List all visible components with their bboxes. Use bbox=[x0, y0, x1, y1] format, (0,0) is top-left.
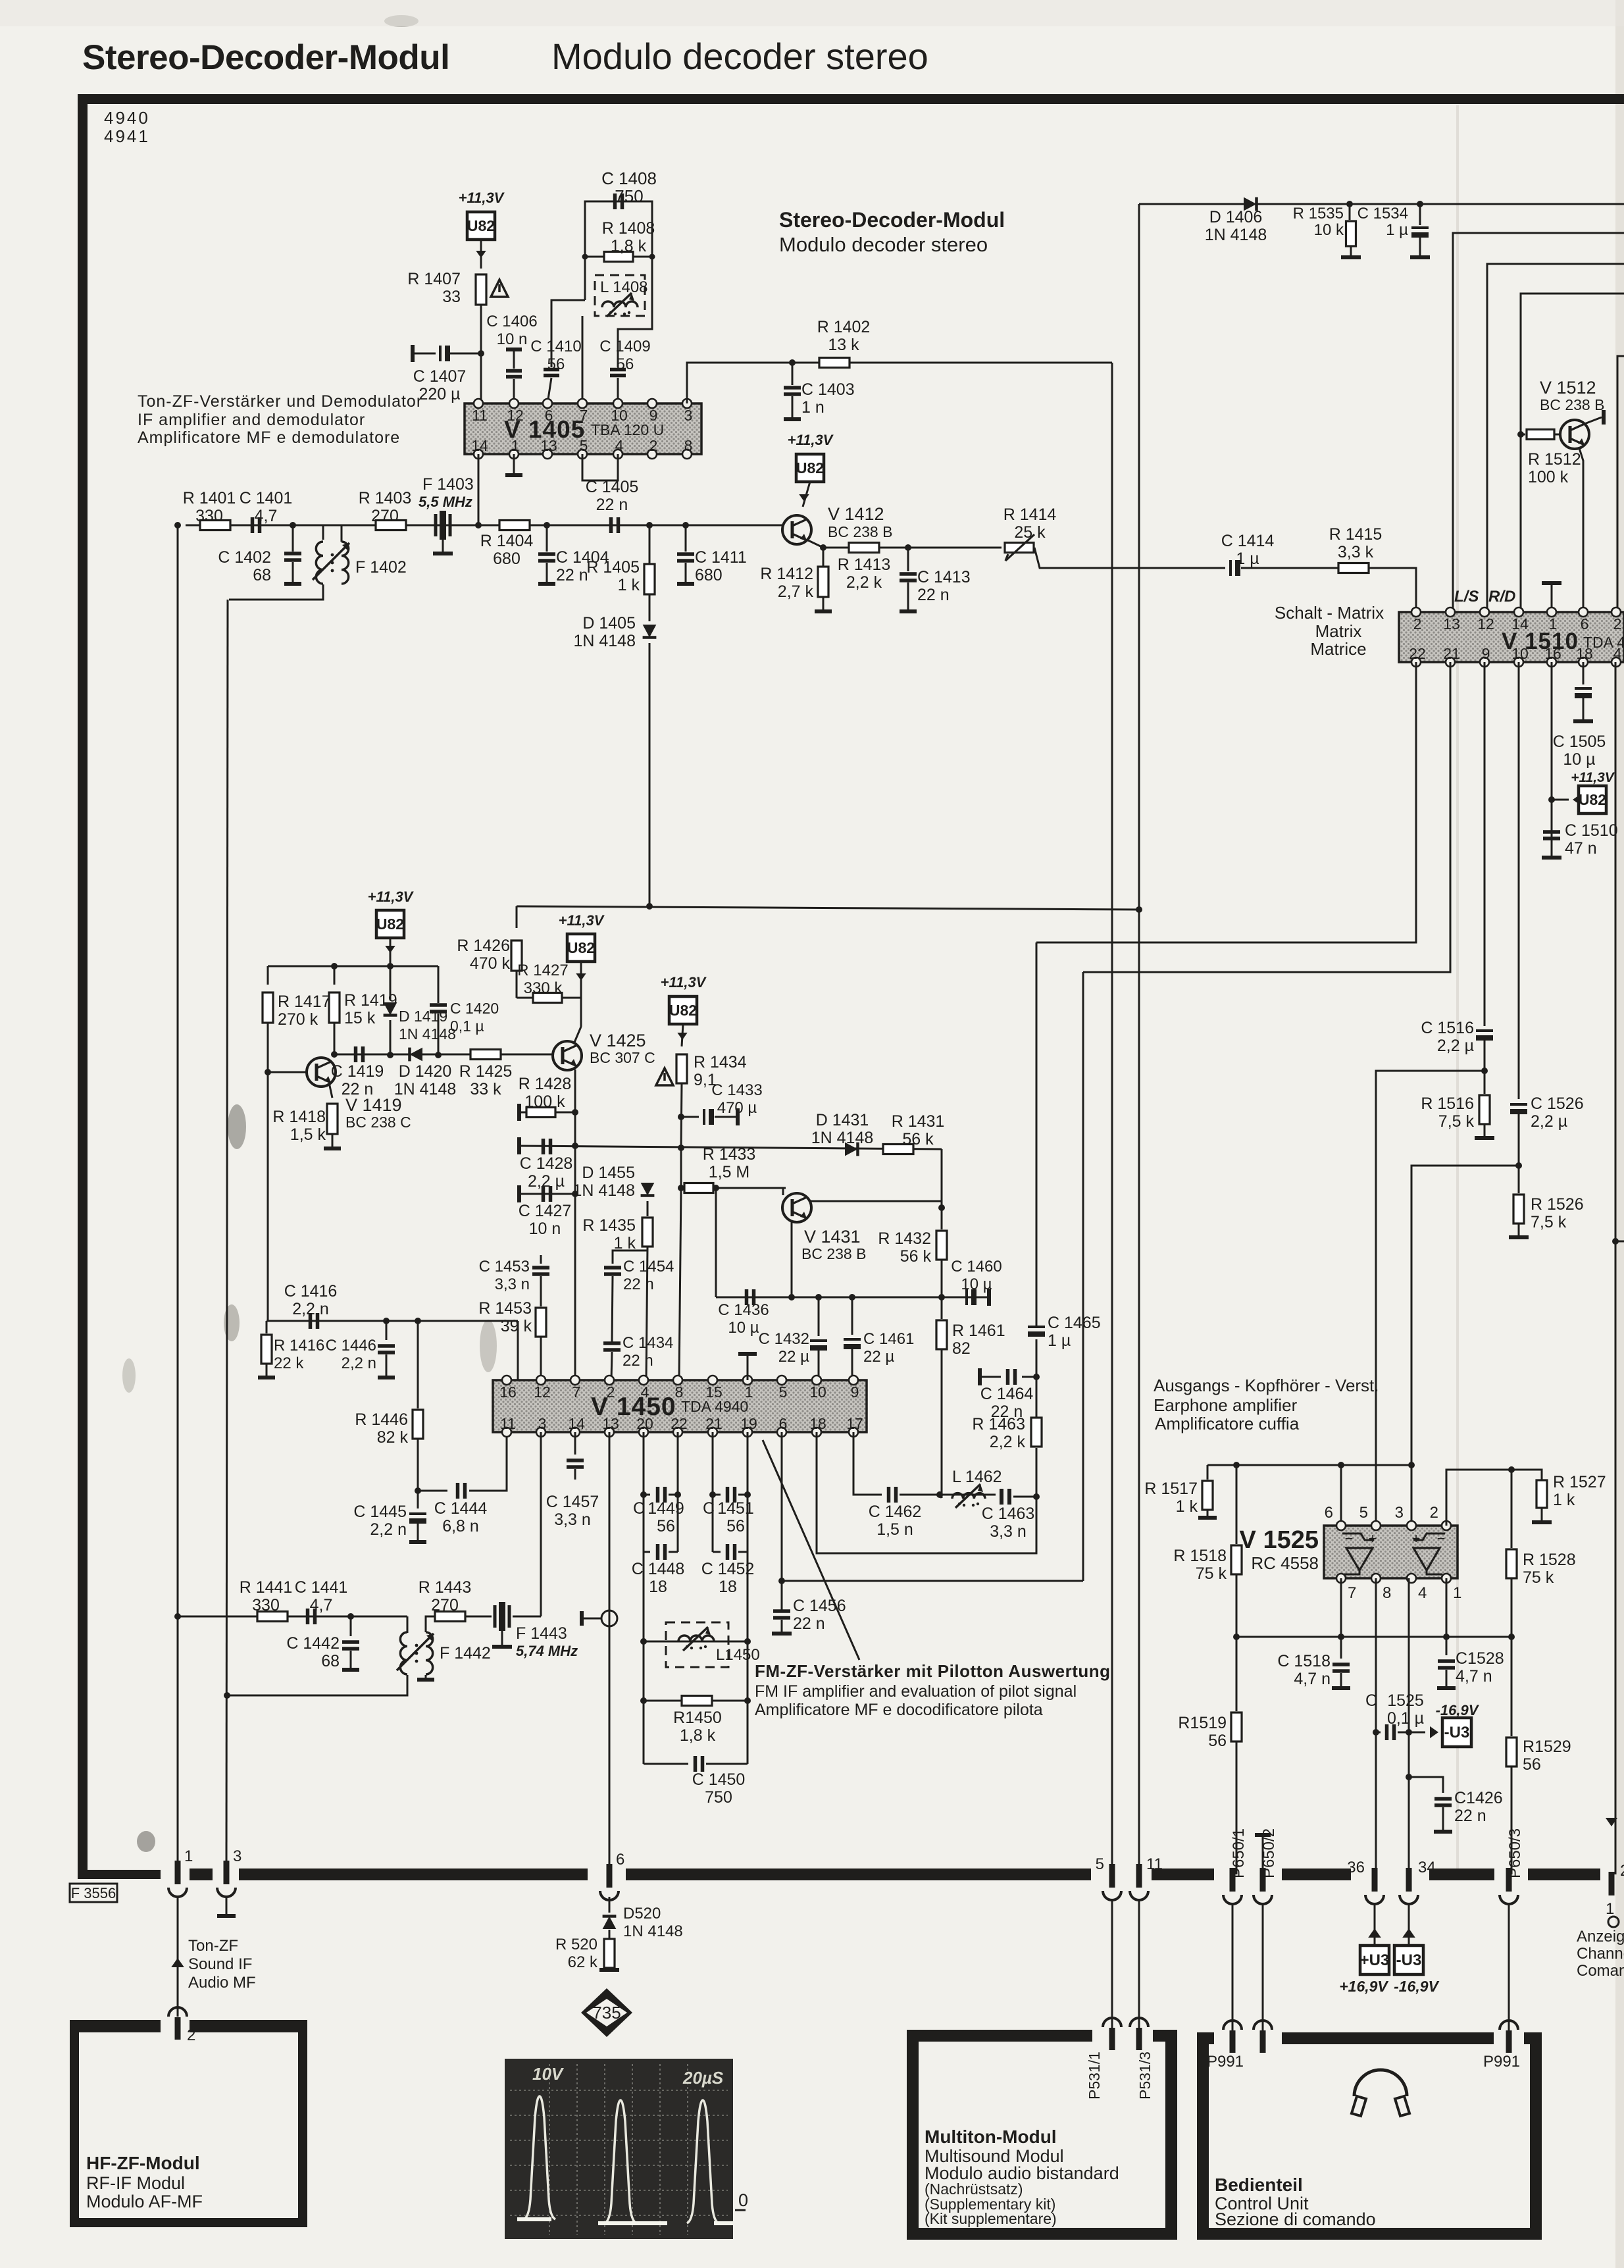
capacitor C1433 bbox=[681, 1116, 699, 1118]
svg-text:R 1426: R 1426 bbox=[457, 937, 510, 955]
svg-text:+16,9V: +16,9V bbox=[1339, 1978, 1388, 1995]
svg-text:R 1434: R 1434 bbox=[694, 1053, 747, 1071]
svg-text:+11,3V: +11,3V bbox=[661, 974, 707, 991]
svg-text:Amplificatore cuffia: Amplificatore cuffia bbox=[1155, 1414, 1300, 1433]
routing wire R1426 node to pin11 line bbox=[517, 906, 1139, 910]
svg-text:R 1417: R 1417 bbox=[278, 992, 331, 1011]
svg-text:R 1413: R 1413 bbox=[838, 555, 891, 574]
wire rail corner down to pin 16 bbox=[517, 1321, 519, 1380]
svg-text:R 1416: R 1416 bbox=[274, 1337, 324, 1354]
svg-text:1,8 k: 1,8 k bbox=[680, 1726, 716, 1745]
svg-text:2,7 k: 2,7 k bbox=[778, 582, 814, 601]
svg-text:C 1411: C 1411 bbox=[695, 548, 747, 567]
svg-text:C 1452: C 1452 bbox=[701, 1560, 755, 1578]
svg-text:15 k: 15 k bbox=[344, 1009, 376, 1027]
resistor R1518 chain bbox=[1236, 1465, 1238, 1544]
resistor R1401 bbox=[200, 521, 230, 530]
wire U82 arrow to R1427 node bbox=[580, 962, 582, 998]
svg-text:C 1446: C 1446 bbox=[326, 1337, 376, 1354]
svg-text:3: 3 bbox=[684, 407, 693, 424]
svg-text:R 1418: R 1418 bbox=[272, 1108, 326, 1126]
stub above V1510 pin 1 bbox=[1542, 581, 1561, 585]
svg-text:25 k: 25 k bbox=[1014, 523, 1046, 542]
diode D1455 bbox=[641, 1183, 655, 1196]
svg-text:6: 6 bbox=[616, 1851, 624, 1869]
svg-text:56: 56 bbox=[547, 355, 565, 373]
svg-text:R 520: R 520 bbox=[555, 1936, 597, 1953]
resistor R1434 bbox=[676, 1054, 687, 1083]
diode D1431 bbox=[845, 1143, 858, 1156]
svg-text:F 1442: F 1442 bbox=[440, 1644, 491, 1662]
resistor R1428 bbox=[517, 1104, 521, 1121]
svg-text:12: 12 bbox=[534, 1383, 551, 1401]
svg-text:+11,3V: +11,3V bbox=[1571, 770, 1615, 785]
emitter wire V1412 bbox=[807, 540, 908, 548]
svg-text:470 µ: 470 µ bbox=[717, 1099, 757, 1117]
svg-text:56 k: 56 k bbox=[902, 1130, 934, 1148]
svg-text:22 n: 22 n bbox=[793, 1614, 825, 1633]
svg-text:18: 18 bbox=[809, 1415, 826, 1432]
bias rail wire bbox=[268, 966, 438, 967]
junction pin10 chain bbox=[1515, 1162, 1522, 1169]
capacitor C1406 bbox=[506, 348, 522, 351]
inductor L1450 dashed box bbox=[640, 1638, 647, 1645]
Ton-ZF input wire bbox=[177, 1897, 179, 2017]
svg-text:2,2 n: 2,2 n bbox=[342, 1354, 376, 1372]
svg-text:17: 17 bbox=[846, 1415, 863, 1432]
wire V1510 pin21 stair to left bbox=[1083, 662, 1450, 972]
ground stub below pin 3 bbox=[226, 1897, 228, 1914]
resistor R1519 bbox=[1236, 1637, 1238, 1711]
V1425 collector down bbox=[574, 1070, 576, 1380]
V1431 base corner bbox=[782, 1188, 784, 1195]
svg-text:F 1403: F 1403 bbox=[422, 475, 474, 494]
svg-text:20µS: 20µS bbox=[682, 2068, 724, 2088]
wire V1525 pin3 from above bbox=[1411, 1465, 1413, 1526]
wire R1427 node to V1425 emitter bbox=[580, 998, 582, 1027]
svg-text:V 1510: V 1510 bbox=[1502, 629, 1579, 654]
wire pin8 down to C1525 node bbox=[1375, 1578, 1377, 1732]
svg-text:Stereo-Decoder-Modul: Stereo-Decoder-Modul bbox=[82, 38, 449, 77]
svg-text:TDA 4940: TDA 4940 bbox=[681, 1398, 748, 1415]
C1416 rail bbox=[266, 1320, 518, 1322]
svg-text:680: 680 bbox=[493, 550, 520, 568]
svg-text:18: 18 bbox=[649, 1578, 667, 1596]
resistor R1431 bbox=[883, 1145, 913, 1154]
label F3556 bbox=[70, 1884, 117, 1902]
transistor V1431 bbox=[782, 1193, 811, 1222]
module pin 1 bbox=[175, 1861, 181, 1884]
capacitor C1518 bbox=[1340, 1637, 1342, 1659]
svg-text:R 1526: R 1526 bbox=[1531, 1195, 1584, 1214]
svg-text:D 1420: D 1420 bbox=[399, 1062, 452, 1081]
svg-text:22 n: 22 n bbox=[622, 1352, 653, 1370]
resistor R1535 bbox=[1346, 201, 1353, 207]
svg-text:4940: 4940 bbox=[104, 108, 150, 128]
svg-text:R 1435: R 1435 bbox=[582, 1216, 636, 1235]
svg-text:2,2 µ: 2,2 µ bbox=[528, 1172, 565, 1191]
svg-text:P991: P991 bbox=[1207, 2053, 1244, 2071]
resistor R1419 bbox=[334, 966, 336, 985]
svg-text:14: 14 bbox=[471, 437, 488, 454]
svg-text:22 µ: 22 µ bbox=[778, 1348, 809, 1366]
vertical V1510 pin10 chain bbox=[1518, 662, 1520, 1099]
wires pin5/11 to Multiton bbox=[1111, 1899, 1113, 2032]
svg-text:-16,9V: -16,9V bbox=[1436, 1702, 1480, 1718]
svg-text:C 1419: C 1419 bbox=[331, 1062, 384, 1081]
wire pin 14 down to main line bbox=[478, 454, 480, 525]
resistor R1418 bbox=[327, 1104, 338, 1134]
svg-text:C 1456: C 1456 bbox=[793, 1597, 846, 1615]
module pin 34 bbox=[1406, 1868, 1412, 1892]
main wire C1428 D1431 R1431 bbox=[517, 1137, 521, 1154]
svg-text:2,2 n: 2,2 n bbox=[370, 1520, 407, 1539]
capacitor C1516 bbox=[1476, 1029, 1493, 1032]
svg-text:C 1534: C 1534 bbox=[1358, 205, 1408, 222]
capacitor C1452 bbox=[713, 1551, 721, 1553]
wire U82 to R1407 bbox=[480, 240, 482, 269]
capacitor C1408 bbox=[615, 193, 622, 209]
wire R1433 junction down bbox=[715, 1188, 717, 1297]
power U82 for V1412 bbox=[796, 454, 824, 482]
svg-text:Audio MF: Audio MF bbox=[188, 1974, 256, 1992]
wire pin1 down bbox=[1446, 1578, 1448, 1637]
svg-text:Modulo decoder stereo: Modulo decoder stereo bbox=[779, 233, 988, 256]
+U3 supply arrow 36 bbox=[1374, 1903, 1376, 1946]
svg-text:Ausgangs - Kopfhörer - Verst.: Ausgangs - Kopfhörer - Verst. bbox=[1154, 1376, 1379, 1395]
svg-text:L 1408: L 1408 bbox=[600, 278, 648, 296]
capacitor C1413 bbox=[907, 548, 909, 571]
IC V1405 TBA120U bbox=[465, 403, 701, 454]
wire pin6 drop bbox=[1340, 1465, 1342, 1526]
module pin 3 bbox=[224, 1861, 230, 1884]
svg-text:10 µ: 10 µ bbox=[961, 1276, 992, 1293]
module border segments bbox=[190, 1869, 213, 1880]
transistor V1512 bbox=[1560, 420, 1589, 449]
svg-text:C 1444: C 1444 bbox=[434, 1499, 488, 1518]
scan crease artifacts bbox=[1456, 105, 1459, 1876]
resistor R1435 bbox=[647, 1201, 649, 1216]
svg-text:C 1518: C 1518 bbox=[1277, 1652, 1331, 1670]
svg-text:10 k: 10 k bbox=[1314, 221, 1344, 239]
svg-text:R 1408: R 1408 bbox=[602, 219, 655, 238]
svg-text:19: 19 bbox=[740, 1415, 757, 1432]
wire R1415 to V1510 pin 2 bbox=[1369, 568, 1416, 612]
svg-text:1N 4148: 1N 4148 bbox=[623, 1922, 683, 1940]
svg-text:1N 4148: 1N 4148 bbox=[1205, 226, 1267, 244]
capacitor C1409 bbox=[610, 370, 626, 376]
svg-text:10 n: 10 n bbox=[529, 1220, 561, 1238]
transistor V1412 bbox=[782, 515, 811, 544]
svg-text:100 k: 100 k bbox=[524, 1093, 565, 1111]
IC V1510 TDA4941 bbox=[1399, 612, 1624, 662]
svg-text:TDA 4941: TDA 4941 bbox=[1583, 634, 1624, 651]
resistor R1413 bbox=[849, 543, 879, 553]
svg-text:R 1405: R 1405 bbox=[586, 558, 640, 577]
svg-text:+: + bbox=[1412, 1530, 1421, 1547]
svg-text:V 1419: V 1419 bbox=[345, 1095, 402, 1115]
svg-text:1525: 1525 bbox=[1387, 1691, 1424, 1710]
junction C1413 bbox=[905, 544, 911, 551]
svg-text:V 1425: V 1425 bbox=[590, 1031, 646, 1050]
svg-text:3: 3 bbox=[233, 1847, 241, 1865]
svg-text:D 1455: D 1455 bbox=[582, 1164, 635, 1182]
resistor R1512 bbox=[1517, 431, 1524, 438]
capacitor C1403 bbox=[792, 363, 794, 385]
svg-text:C 1407: C 1407 bbox=[413, 367, 467, 386]
diode D1419 bbox=[390, 966, 392, 1000]
svg-text:R 1412: R 1412 bbox=[760, 565, 813, 583]
resistor R1446 bbox=[413, 1410, 423, 1439]
filter F1443 bbox=[465, 1616, 492, 1618]
svg-text:5,5 MHz: 5,5 MHz bbox=[419, 494, 472, 510]
svg-text:1,8 k: 1,8 k bbox=[611, 237, 647, 255]
resistor R1443 bbox=[435, 1612, 465, 1622]
svg-text:V 1405: V 1405 bbox=[504, 416, 585, 443]
svg-text:C 1461: C 1461 bbox=[863, 1330, 914, 1348]
svg-text:BC 238 B: BC 238 B bbox=[1540, 396, 1604, 413]
svg-text:R 1433: R 1433 bbox=[703, 1145, 756, 1164]
power U82 above V1419 bbox=[376, 910, 404, 938]
svg-text:R 1401: R 1401 bbox=[183, 489, 236, 507]
power U82 above R1434 bbox=[669, 996, 697, 1024]
svg-text:56: 56 bbox=[1208, 1732, 1227, 1750]
svg-text:FM-ZF-Verstärker mit Pilotton: FM-ZF-Verstärker mit Pilotton Auswertung bbox=[755, 1661, 1111, 1681]
capacitor C1534 bbox=[1417, 201, 1423, 207]
resistor R1461 bbox=[941, 1297, 943, 1319]
svg-text:1N 4148: 1N 4148 bbox=[573, 632, 636, 650]
wire pin7 down bbox=[1340, 1578, 1342, 1637]
svg-text:22 µ: 22 µ bbox=[863, 1348, 894, 1366]
diode D1405 bbox=[649, 594, 651, 621]
power U82 above V1425 bbox=[567, 934, 595, 962]
svg-text:Matrice: Matrice bbox=[1310, 639, 1366, 659]
capacitor C1465 bbox=[1036, 1339, 1038, 1377]
svg-text:+11,3V: +11,3V bbox=[459, 190, 505, 206]
oscillogram photo bbox=[505, 2059, 733, 2239]
svg-text:C 1454: C 1454 bbox=[623, 1258, 674, 1276]
svg-text:R 1518: R 1518 bbox=[1173, 1547, 1227, 1565]
svg-text:2: 2 bbox=[1430, 1504, 1438, 1522]
svg-text:C 1462: C 1462 bbox=[869, 1503, 922, 1521]
svg-text:R 1414: R 1414 bbox=[1003, 505, 1057, 524]
svg-text:R 1404: R 1404 bbox=[480, 532, 534, 550]
signal wire C1419 D1420 R1425 bbox=[334, 1054, 553, 1056]
svg-text:0: 0 bbox=[738, 2190, 748, 2210]
svg-text:D 1405: D 1405 bbox=[582, 614, 636, 632]
capacitor C1463 bbox=[1002, 1489, 1009, 1505]
svg-text:+11,3V: +11,3V bbox=[788, 432, 834, 448]
collector stub V1512 bbox=[1585, 417, 1602, 424]
Bedienteil box bbox=[1197, 2032, 1209, 2240]
svg-text:C 1403: C 1403 bbox=[801, 380, 855, 399]
wire pin 3 up and right to R1402 bbox=[687, 363, 1112, 403]
resistor R1405 vertical bbox=[649, 525, 651, 564]
svg-text:C: C bbox=[1365, 1691, 1377, 1710]
stair wire to V1510 pin 14 bbox=[1521, 294, 1624, 612]
svg-text:P991: P991 bbox=[1483, 2053, 1520, 2071]
svg-text:C 1410: C 1410 bbox=[530, 338, 581, 355]
svg-text:1: 1 bbox=[1606, 1900, 1614, 1918]
svg-text:-U3: -U3 bbox=[1444, 1724, 1470, 1741]
svg-text:7,5 k: 7,5 k bbox=[1531, 1213, 1567, 1231]
wire P650/3 down bbox=[1508, 1903, 1510, 2034]
wire R1407 to pin 11 bbox=[480, 305, 482, 403]
capacitor C1411 bbox=[685, 525, 687, 552]
svg-text:C: C bbox=[633, 1499, 645, 1518]
svg-text:Modulo AF-MF: Modulo AF-MF bbox=[86, 2192, 203, 2211]
svg-text:22 n: 22 n bbox=[623, 1276, 654, 1293]
svg-text:68: 68 bbox=[253, 566, 271, 584]
svg-text:C 1433: C 1433 bbox=[711, 1081, 762, 1099]
resistor R1416 bbox=[266, 1321, 268, 1333]
resistor R1417 bbox=[267, 966, 269, 985]
svg-text:56: 56 bbox=[617, 355, 634, 373]
svg-text:−: − bbox=[1345, 1530, 1354, 1547]
svg-text:HF-ZF-Modul: HF-ZF-Modul bbox=[86, 2153, 200, 2173]
svg-text:BC 238 C: BC 238 C bbox=[345, 1114, 411, 1131]
capacitor C1510 bbox=[1543, 832, 1560, 838]
power U82 feeding R1407 bbox=[467, 212, 495, 240]
headphone icon bbox=[1354, 2070, 1407, 2096]
svg-text:(Kit supplementare): (Kit supplementare) bbox=[925, 2210, 1057, 2227]
svg-text:3: 3 bbox=[1395, 1504, 1404, 1522]
capacitor C1451 bbox=[709, 1491, 716, 1498]
capacitor C1505 bbox=[1583, 662, 1585, 684]
svg-text:10 µ: 10 µ bbox=[728, 1319, 759, 1337]
svg-text:R 1425: R 1425 bbox=[459, 1062, 513, 1081]
inductor L1462 bbox=[952, 1493, 985, 1499]
svg-text:36: 36 bbox=[1347, 1859, 1365, 1876]
branch wire down-left to V1525 pin 3 bbox=[1411, 1166, 1519, 1526]
svg-text:2,2 µ: 2,2 µ bbox=[1531, 1112, 1567, 1131]
svg-text:+: + bbox=[1369, 1530, 1377, 1547]
svg-text:4941: 4941 bbox=[104, 126, 150, 146]
svg-text:R 1512: R 1512 bbox=[1528, 450, 1581, 469]
V1431 collector wire bbox=[809, 1200, 942, 1202]
junction R1434 line bbox=[678, 1145, 684, 1151]
svg-text:C 1405: C 1405 bbox=[586, 478, 639, 496]
svg-text:C 1460: C 1460 bbox=[951, 1258, 1002, 1276]
pin3 long vertical bbox=[226, 600, 228, 1872]
svg-text:735: 735 bbox=[592, 2003, 621, 2023]
svg-text:R1529: R1529 bbox=[1523, 1738, 1571, 1756]
svg-text:R 1415: R 1415 bbox=[1329, 525, 1383, 544]
wire pin 20 down bbox=[643, 1432, 645, 1764]
warning triangle near R1434 bbox=[656, 1068, 673, 1085]
svg-text:12: 12 bbox=[1477, 615, 1494, 632]
resistor R1402 bbox=[819, 358, 850, 368]
svg-text:1 k: 1 k bbox=[1176, 1497, 1198, 1516]
wire pin 17 to C1462 bbox=[853, 1432, 882, 1495]
wire U82 to R1434 bbox=[682, 1024, 683, 1046]
wire L1408 right to C1409 bbox=[618, 257, 652, 367]
capacitor C1407 bbox=[411, 345, 415, 362]
resistor R1450 bbox=[640, 1697, 647, 1704]
wire U82 to V1412 bbox=[803, 482, 810, 507]
svg-text:3,3 n: 3,3 n bbox=[495, 1276, 530, 1293]
svg-text:Ton-ZF: Ton-ZF bbox=[188, 1937, 238, 1955]
svg-text:R 1446: R 1446 bbox=[355, 1410, 408, 1429]
svg-text:V 1450: V 1450 bbox=[591, 1393, 676, 1421]
resistor R1404 bbox=[499, 521, 530, 530]
svg-text:R 1428: R 1428 bbox=[519, 1075, 572, 1093]
svg-text:330 k: 330 k bbox=[524, 979, 563, 997]
resistor R1412 bbox=[823, 548, 825, 566]
svg-text:1,5 n: 1,5 n bbox=[876, 1520, 913, 1539]
svg-text:1449: 1449 bbox=[647, 1499, 684, 1518]
svg-text:1: 1 bbox=[1453, 1584, 1461, 1602]
capacitor C1526 bbox=[1510, 1103, 1527, 1106]
svg-text:C 1413: C 1413 bbox=[917, 568, 971, 586]
capacitor C1432 bbox=[815, 1294, 822, 1301]
svg-text:BC 238 B: BC 238 B bbox=[828, 523, 892, 540]
svg-text:330: 330 bbox=[195, 507, 223, 525]
main input line y798 bbox=[186, 525, 782, 527]
junction C1444 wire bbox=[415, 1487, 421, 1494]
svg-text:7,5 k: 7,5 k bbox=[1438, 1112, 1475, 1131]
L1462 wire bbox=[900, 1494, 996, 1496]
svg-text:P650/3: P650/3 bbox=[1506, 1828, 1524, 1878]
wire pin7 to L1408 bbox=[582, 316, 584, 403]
svg-text:14: 14 bbox=[568, 1415, 585, 1432]
resistor R1432 bbox=[941, 1208, 943, 1229]
wire R1461 bottom junction bbox=[940, 1495, 942, 1498]
ground stub pin 1 of V1405 bbox=[513, 454, 515, 474]
svg-text:R 1407: R 1407 bbox=[407, 270, 461, 288]
capacitor C1528 bbox=[1446, 1637, 1448, 1655]
svg-text:13: 13 bbox=[1443, 615, 1460, 632]
svg-text:+11,3V: +11,3V bbox=[559, 912, 605, 929]
stub above P650/2 bbox=[1262, 1836, 1264, 1868]
op-amp A in V1525 bbox=[1342, 1533, 1374, 1540]
svg-text:8: 8 bbox=[684, 437, 693, 454]
svg-text:0,1 µ: 0,1 µ bbox=[450, 1018, 484, 1035]
svg-text:L 1462: L 1462 bbox=[952, 1468, 1002, 1486]
svg-text:270 k: 270 k bbox=[278, 1010, 318, 1029]
svg-text:1 µ: 1 µ bbox=[1386, 221, 1408, 239]
svg-text:BC 307 C: BC 307 C bbox=[590, 1049, 655, 1066]
svg-text:U82: U82 bbox=[1579, 791, 1606, 808]
junction R1405 top bbox=[646, 522, 653, 528]
svg-text:1N 4148: 1N 4148 bbox=[811, 1129, 874, 1147]
svg-text:2,2 n: 2,2 n bbox=[292, 1300, 329, 1318]
capacitor C1444 bbox=[418, 1490, 447, 1492]
resistor R1403 bbox=[376, 521, 406, 530]
resistor R1463 bbox=[1036, 1448, 1038, 1497]
vertical V1510 pin9 chain bbox=[1484, 662, 1486, 1026]
module pin 22 bbox=[1609, 1872, 1615, 1895]
diode D1420 bbox=[410, 1048, 423, 1062]
svg-text:V 1431: V 1431 bbox=[804, 1227, 861, 1247]
svg-text:Sezione di comando: Sezione di comando bbox=[1215, 2209, 1376, 2229]
svg-text:Amplificatore MF e demodulator: Amplificatore MF e demodulatore bbox=[138, 428, 400, 447]
svg-text:F 1402: F 1402 bbox=[355, 558, 407, 577]
wire R1414 to C1414 bbox=[1034, 548, 1225, 568]
svg-text:75 k: 75 k bbox=[1523, 1568, 1554, 1587]
svg-text:1 n: 1 n bbox=[801, 398, 825, 417]
transformer F1442 bbox=[407, 1616, 409, 1633]
module border corner bbox=[78, 1823, 161, 1879]
svg-text:1N 4148: 1N 4148 bbox=[394, 1080, 457, 1098]
svg-text:C 1445: C 1445 bbox=[353, 1503, 407, 1521]
warning triangle near R1407 bbox=[491, 280, 508, 297]
svg-text:5,74 MHz: 5,74 MHz bbox=[516, 1643, 578, 1659]
svg-text:U82: U82 bbox=[567, 939, 595, 956]
svg-text:1,5 k: 1,5 k bbox=[290, 1125, 326, 1144]
capacitor C1405 bbox=[611, 517, 619, 533]
svg-text:R 1441: R 1441 bbox=[240, 1578, 293, 1597]
